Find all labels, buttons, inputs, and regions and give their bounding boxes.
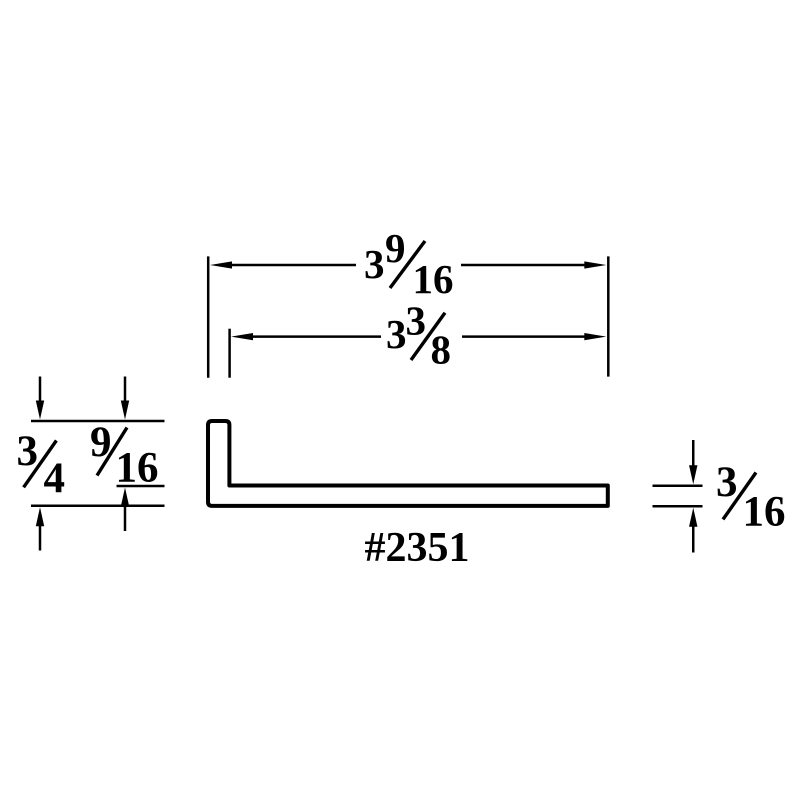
svg-text:16: 16 — [116, 445, 159, 492]
extension line web-bottom (right, y=506.2) — [653, 505, 703, 508]
svg-text:#2351: #2351 — [365, 525, 470, 571]
dimension line 3 3/8 right segment — [462, 335, 587, 338]
svg-text:8: 8 — [431, 327, 452, 373]
label 9/16 — [90, 419, 159, 492]
label 3 3/8 — [386, 298, 451, 373]
label 3/16 — [716, 459, 786, 536]
arrow 9/16 up — [121, 488, 129, 532]
dimension line 3 9/16 left segment — [229, 264, 356, 267]
svg-text:16: 16 — [743, 489, 786, 536]
extension line web-top (left short, y=486) — [117, 485, 165, 488]
arrow 9/16 down — [121, 377, 129, 420]
svg-text:9: 9 — [385, 225, 406, 271]
svg-text:4: 4 — [44, 455, 66, 502]
extension line bottom-of-profile (left, y=505.7) — [31, 504, 165, 507]
svg-text:3: 3 — [364, 241, 385, 287]
arrowhead 3 9/16 right — [584, 261, 606, 268]
extension line web-top (right, y=485.7) — [653, 484, 703, 487]
arrow 3/16 up — [689, 508, 697, 553]
arrowhead 3 3/8 right — [584, 333, 606, 340]
arrowhead 3 9/16 left — [210, 261, 232, 268]
extension line top-of-profile (left, y=421) — [31, 420, 165, 423]
svg-text:3: 3 — [386, 311, 407, 357]
svg-text:3: 3 — [716, 459, 738, 506]
dimension line 3 3/8 left segment — [250, 335, 381, 338]
extension line inner left (x=229) — [228, 329, 231, 378]
svg-text:3: 3 — [17, 428, 39, 475]
dimension line 3 9/16 right segment — [461, 264, 587, 267]
arrow 3/4 up — [36, 507, 44, 550]
arrow 3/4 down — [36, 377, 44, 420]
profile outline #2351 L-shape — [208, 421, 608, 506]
extension line right (x=608) — [607, 256, 610, 376]
arrow 3/16 down — [689, 440, 697, 484]
svg-text:16: 16 — [413, 256, 454, 302]
extension line left (x=208) — [207, 256, 210, 377]
label 3 9/16 — [364, 225, 454, 302]
arrowhead 3 3/8 left — [231, 333, 253, 340]
label 3/4 — [17, 428, 66, 502]
svg-text:3: 3 — [406, 298, 427, 344]
